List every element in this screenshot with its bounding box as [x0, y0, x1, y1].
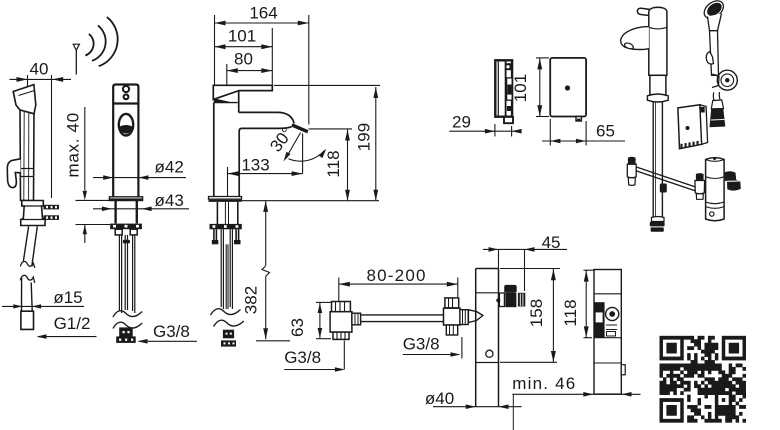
bracket mounting pins — [44, 205, 60, 210]
control box front view — [550, 58, 586, 117]
hand spray wall bracket — [21, 201, 46, 226]
side supply pipes — [220, 229, 222, 307]
side G3/8 connector — [223, 330, 234, 339]
svg-text:ø40: ø40 — [425, 389, 454, 408]
deck line side view — [242, 200, 380, 202]
faucet front LED holes — [123, 86, 129, 92]
assembly bar clip on pipe — [660, 184, 667, 193]
assembly spray wall mount — [717, 70, 737, 90]
faucet front threaded rod and nut — [124, 235, 126, 310]
side washer bolts — [213, 229, 215, 240]
faucet front base flange — [109, 197, 142, 201]
svg-text:29: 29 — [452, 113, 471, 132]
left elbow bar socket — [352, 313, 361, 325]
faucet front sensor window — [119, 114, 133, 136]
svg-text:118: 118 — [561, 299, 580, 326]
assembly spray trigger — [706, 52, 713, 65]
assembly hand spray head — [701, 0, 727, 22]
side faucet aerator — [291, 123, 308, 133]
control box side foot — [504, 117, 513, 123]
antenna symbol — [73, 44, 79, 50]
assembly faucet base ring — [647, 94, 668, 102]
assembly hand spray handle — [710, 31, 719, 76]
control box side view — [495, 60, 512, 116]
hand spray hose lower — [21, 278, 23, 312]
faucet front cap separator — [113, 102, 138, 104]
faucet front shank — [114, 201, 116, 224]
left wall elbow — [332, 302, 351, 312]
faucet front bracket nuts — [115, 229, 122, 235]
svg-text:G3/8: G3/8 — [284, 348, 321, 367]
check valve on post — [504, 285, 517, 293]
hand spray hose upper — [23, 226, 28, 261]
post front cartridge — [594, 302, 605, 338]
side faucet shank below deck — [216, 202, 218, 224]
stream vertical reference — [302, 134, 304, 174]
assembly box vents — [681, 144, 683, 148]
svg-text:min. 46: min. 46 — [512, 374, 576, 393]
stream angle arc — [289, 151, 325, 162]
svg-text:max. 40: max. 40 — [64, 112, 83, 177]
hose G1/2 fitting — [21, 311, 34, 329]
lever gap shading — [214, 98, 232, 102]
faucet front supply pipes — [118, 235, 120, 311]
svg-text:101: 101 — [511, 74, 530, 102]
faucet front body outline — [113, 85, 138, 199]
assembly faucet supply pipe — [652, 102, 654, 218]
side faucet body column — [214, 102, 238, 104]
svg-text:80: 80 — [234, 50, 253, 69]
assembly cross bar — [636, 167, 697, 188]
svg-text:ø42: ø42 — [155, 158, 184, 177]
assembly thermostat cylinder — [706, 158, 725, 221]
assembly spray hose — [713, 92, 714, 101]
svg-text:101: 101 — [228, 27, 256, 46]
svg-text:118: 118 — [324, 150, 343, 177]
svg-text:382: 382 — [242, 286, 261, 314]
side faucet spout top — [239, 112, 295, 123]
control box front foot — [576, 117, 581, 122]
hose break squiggle — [20, 261, 34, 267]
assembly control box — [678, 105, 702, 149]
assembly faucet lower body — [650, 75, 666, 95]
svg-text:199: 199 — [355, 123, 374, 151]
stream 30 deg line — [285, 133, 300, 160]
svg-text:G3/8: G3/8 — [403, 335, 440, 354]
assembly faucet lever — [637, 8, 655, 16]
svg-text:G3/8: G3/8 — [153, 322, 190, 341]
side faucet lever — [213, 85, 272, 99]
assembly left valve — [628, 157, 636, 164]
assembly hand spray neck — [708, 14, 722, 31]
svg-text:80-200: 80-200 — [367, 266, 427, 285]
wall bar — [361, 314, 446, 316]
assembly hose connector cone — [710, 109, 726, 128]
assembly faucet body — [649, 7, 667, 75]
svg-text:G1/2: G1/2 — [54, 314, 91, 333]
svg-text:63: 63 — [288, 318, 307, 337]
assembly middle valve — [696, 173, 704, 180]
hand spray trigger hook — [7, 159, 20, 188]
svg-text:133: 133 — [241, 156, 269, 175]
front pipes break waves — [113, 311, 142, 317]
radio waves arcs — [85, 34, 93, 56]
svg-text:158: 158 — [527, 299, 546, 327]
hand spray head — [13, 85, 36, 114]
post front side tab — [621, 365, 625, 375]
hand spray handle — [20, 110, 34, 201]
assembly faucet spout — [621, 27, 649, 50]
eccentric connector — [460, 310, 468, 325]
assembly box clip — [700, 107, 704, 113]
QR code — [660, 336, 747, 423]
right wall elbow — [445, 298, 459, 308]
assembly right knobs — [725, 171, 737, 182]
svg-text:164: 164 — [249, 4, 277, 23]
front G3/8 connector — [119, 327, 133, 337]
mounting post front view — [594, 270, 621, 395]
faucet front washer plate — [110, 224, 142, 230]
svg-text:65: 65 — [596, 122, 615, 141]
svg-text:40: 40 — [30, 60, 49, 79]
side faucet base flange — [209, 197, 242, 200]
min 46 extension drop — [512, 394, 514, 430]
svg-text:ø15: ø15 — [53, 288, 82, 307]
control box side clip — [507, 78, 513, 100]
side washer plate — [210, 224, 242, 229]
mounting post side view — [475, 269, 477, 407]
control box side screw tab — [505, 63, 513, 70]
side pipes break waves — [211, 309, 241, 315]
assembly pipe foot — [652, 217, 665, 222]
svg-text:ø43: ø43 — [155, 191, 184, 210]
